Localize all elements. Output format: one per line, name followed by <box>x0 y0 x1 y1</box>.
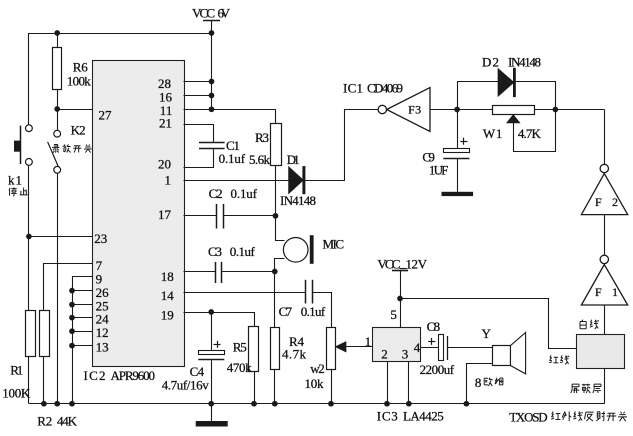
wire IC3 pin1 to w2 wiper <box>346 346 373 348</box>
svg-text:5: 5 <box>390 307 397 322</box>
wire node to R4 top <box>274 272 276 328</box>
svg-text:IC1: IC1 <box>343 81 363 96</box>
wire C9 bottom to ground <box>457 158 459 191</box>
junction <box>69 401 75 407</box>
potentiometer W1 wiper arrow <box>507 115 519 123</box>
svg-text:R1: R1 <box>10 362 23 377</box>
svg-text:VCC: VCC <box>377 256 400 271</box>
svg-text:4: 4 <box>414 340 421 355</box>
wire pin 9 bus vertical <box>73 277 93 404</box>
ground symbol C9 <box>442 192 474 196</box>
pushbutton k1 chinese label 停止 <box>9 187 28 196</box>
wire C7 to w2 top <box>313 293 332 328</box>
junction <box>69 328 75 334</box>
inverter F3 <box>387 88 430 132</box>
wire D1 cathode to F3 input <box>306 110 379 181</box>
junction <box>69 343 75 349</box>
speaker Y <box>493 346 511 366</box>
switch K2 blade <box>48 142 59 167</box>
capacitor C9 plus sign <box>460 141 467 143</box>
junction <box>69 302 75 308</box>
wire C8 to speaker <box>448 347 492 349</box>
svg-text:0.1uf: 0.1uf <box>219 151 246 166</box>
wire C4 bottom lead <box>211 360 213 404</box>
junction <box>26 234 32 240</box>
wire top rail VCC6V horizontal <box>29 33 212 35</box>
wire K2 bottom to ground rail <box>57 173 59 404</box>
wire IC3 pin3 lead <box>408 361 410 404</box>
svg-text:IC2: IC2 <box>84 368 106 383</box>
svg-text:17: 17 <box>158 207 172 222</box>
junction <box>208 309 214 315</box>
wire ground rail bottom <box>29 403 604 405</box>
svg-text:10k: 10k <box>305 376 325 391</box>
svg-text:LA4425: LA4425 <box>403 408 444 423</box>
svg-text:TXOSD: TXOSD <box>509 410 547 425</box>
svg-text:5.6k: 5.6k <box>249 152 271 167</box>
resistor R1 <box>26 311 36 357</box>
junction <box>209 93 215 99</box>
wire D2 top left <box>457 81 498 83</box>
svg-text:12: 12 <box>96 325 109 340</box>
wire R4 bottom lead <box>274 370 276 404</box>
svg-text:1: 1 <box>365 334 372 349</box>
junction <box>397 296 403 302</box>
wire pin 1 to D1 anode <box>184 180 289 182</box>
wire pin 12 <box>72 331 92 333</box>
svg-text:R5: R5 <box>233 340 247 355</box>
wire D2 top right <box>516 82 556 110</box>
svg-text:K2: K2 <box>71 123 86 138</box>
svg-text:2200uf: 2200uf <box>420 362 455 377</box>
svg-text:APR9600: APR9600 <box>111 368 156 383</box>
junction <box>54 106 60 112</box>
junction <box>406 401 412 407</box>
junction <box>54 401 60 407</box>
wire pin 24 <box>72 317 92 319</box>
wire pin 19 <box>184 313 255 327</box>
svg-text:12V: 12V <box>406 256 428 271</box>
TX05D infrared switch module body <box>577 335 625 369</box>
svg-text:100k: 100k <box>67 74 92 89</box>
svg-text:k 1: k 1 <box>8 173 22 188</box>
svg-text:44K: 44K <box>57 414 78 429</box>
junction <box>272 401 278 407</box>
svg-text:F 1: F 1 <box>595 285 618 299</box>
wire to F2 input <box>604 110 606 165</box>
pushbutton k1 terminals <box>28 125 30 128</box>
wire F3 output row to W1 <box>430 109 492 111</box>
wire pin 7 to R2 <box>44 264 93 311</box>
capacitor C9 polarized plates <box>444 149 470 153</box>
svg-text:21: 21 <box>159 116 172 131</box>
svg-text:IN4148: IN4148 <box>280 193 316 208</box>
capacitor C8 polarized plates <box>439 335 444 361</box>
pushbutton k1 actuator <box>20 126 22 164</box>
resistor R6 <box>53 48 62 90</box>
inverter F1 <box>581 265 627 306</box>
wire R3 bottom through pin1 to C2 node and MIC top <box>276 166 285 241</box>
resistor R4 <box>271 328 280 370</box>
junction <box>464 401 470 407</box>
wire pin 13 <box>72 345 92 347</box>
inverter F2 <box>581 174 627 215</box>
svg-text:6V: 6V <box>218 5 231 20</box>
wire R6 top lead <box>57 33 59 47</box>
svg-text:2: 2 <box>381 347 388 362</box>
wire pin 17 to C2 <box>184 215 217 217</box>
wire w2 bottom lead <box>331 370 333 404</box>
wire F2 to F1 <box>604 215 606 256</box>
potentiometer w2 wiper arrow <box>336 342 346 352</box>
wire W1 wiper return <box>514 110 556 152</box>
potentiometer W1 body <box>493 106 535 115</box>
capacitor C4 plus sign <box>214 344 221 346</box>
junction <box>41 401 47 407</box>
switch K2 chinese label 录放开关 <box>52 144 92 152</box>
junction <box>208 401 214 407</box>
svg-text:0.1uf: 0.1uf <box>301 304 326 319</box>
svg-text:470k: 470k <box>227 360 253 375</box>
IC3 LA4425 body <box>373 328 421 362</box>
capacitor C8 plus sign <box>428 341 435 343</box>
wire pin 25 <box>72 304 92 306</box>
wire R1 bottom to ground rail <box>28 357 30 404</box>
wire F1 to TX box (white lead) <box>604 305 606 334</box>
svg-text:27: 27 <box>99 107 113 122</box>
capacitor C4 polarized plates <box>199 351 225 355</box>
wire TX box shield to ground rail <box>604 369 606 404</box>
svg-text:4.7uf/16v: 4.7uf/16v <box>162 378 210 393</box>
wire pin 27 <box>57 109 92 111</box>
junction <box>69 315 75 321</box>
wire pin 11 to R3 top <box>184 110 276 124</box>
wire VCC 12V stub <box>392 270 408 272</box>
shield label 屏蔽层 <box>571 384 601 393</box>
wire W1 right lead <box>535 109 605 111</box>
svg-text:1: 1 <box>165 173 172 188</box>
wire speaker return to ground rail <box>467 364 493 404</box>
white lead label 白线 <box>580 320 599 329</box>
wire IC3 pin2 lead <box>387 361 389 404</box>
svg-text:C2: C2 <box>209 186 223 201</box>
svg-text:IC3: IC3 <box>377 408 398 423</box>
svg-text:R3: R3 <box>255 130 269 145</box>
svg-text:CD4069: CD4069 <box>367 81 403 96</box>
svg-text:20: 20 <box>158 157 171 172</box>
svg-text:18: 18 <box>161 269 174 284</box>
svg-text:R6: R6 <box>73 60 89 75</box>
diode D1 <box>289 167 303 193</box>
svg-text:19: 19 <box>161 308 174 323</box>
wire MIC bottom to pin18 node <box>275 259 285 272</box>
ground symbol main <box>196 421 228 427</box>
wire VCC12 branch to red lead <box>401 299 577 349</box>
resistor R5 <box>249 327 259 372</box>
junction <box>209 30 215 36</box>
svg-text:W1: W1 <box>483 126 503 141</box>
wire pin 23 <box>29 236 92 238</box>
capacitor C1 plates <box>199 142 225 144</box>
svg-text:D1: D1 <box>287 152 300 167</box>
svg-text:IN4148: IN4148 <box>508 54 541 69</box>
svg-text:1UF: 1UF <box>429 163 449 178</box>
svg-text:F 2: F 2 <box>595 195 618 209</box>
wire R2 bottom lead <box>43 357 45 404</box>
svg-text:23: 23 <box>94 231 107 246</box>
wire C2 to node <box>223 215 276 217</box>
svg-text:13: 13 <box>96 340 109 355</box>
wire pin 18 to C3 <box>184 271 216 273</box>
diode D2 <box>498 69 513 96</box>
wire IC3 pin4 to C8 <box>421 347 439 349</box>
svg-text:4.7k: 4.7k <box>282 347 307 362</box>
wire left rail vertical k1 branch top <box>28 33 30 125</box>
resistor R3 <box>271 124 282 166</box>
wire D2 branch left <box>457 82 459 148</box>
svg-text:0.1uf: 0.1uf <box>231 186 258 201</box>
svg-text:0.1uf: 0.1uf <box>230 244 256 259</box>
resistor R2 <box>40 311 50 357</box>
junction <box>454 107 460 113</box>
junction <box>273 213 279 219</box>
capacitor C7 plates <box>305 280 307 304</box>
switch K2 terminals <box>54 130 61 137</box>
junction <box>69 288 75 294</box>
junction <box>209 106 215 112</box>
svg-text:100K: 100K <box>2 386 31 401</box>
wire ground stub below rail <box>211 404 213 421</box>
junction <box>328 401 334 407</box>
junction <box>251 401 257 407</box>
svg-text:3: 3 <box>402 347 409 362</box>
wire R6 bottom lead to pin27 node <box>57 89 59 130</box>
wire pin 28 <box>184 81 212 83</box>
wire C4 top lead <box>211 312 213 350</box>
svg-text:Y: Y <box>482 326 492 341</box>
svg-text:VCC: VCC <box>192 5 215 20</box>
junction <box>384 401 390 407</box>
svg-text:MIC: MIC <box>323 236 345 251</box>
wire k1 to R1 and bottom <box>28 165 30 310</box>
svg-text:C3: C3 <box>208 244 222 259</box>
capacitor C3 plates <box>215 262 217 283</box>
junction <box>272 269 278 275</box>
potentiometer w2 body <box>327 328 336 370</box>
wire C3 to node <box>221 271 274 273</box>
wire R5 bottom lead <box>254 371 256 404</box>
junction <box>553 107 559 113</box>
junction <box>209 79 215 85</box>
svg-text:R2: R2 <box>37 414 52 429</box>
red lead label 红线 <box>549 355 569 364</box>
wire pin 21 to C1 <box>184 125 214 143</box>
wire pin 14 to C7 <box>184 292 306 294</box>
svg-text:4.7K: 4.7K <box>518 126 542 141</box>
capacitor C2 plates <box>216 204 218 229</box>
wire pin 16 <box>184 95 212 97</box>
wire pin 20 to C1 <box>184 149 214 168</box>
microphone MIC <box>283 238 308 263</box>
op-amp U? IC2 APR9600 body <box>93 61 185 367</box>
svg-text:D2: D2 <box>482 54 499 69</box>
wire VCC 6V stub <box>203 20 220 22</box>
svg-text:14: 14 <box>161 288 175 303</box>
svg-text:C8: C8 <box>427 319 441 334</box>
svg-text:w2: w2 <box>310 361 325 376</box>
wire pin 26 <box>72 290 92 292</box>
junction <box>54 30 60 36</box>
svg-text:8: 8 <box>475 375 482 390</box>
svg-text:F 3: F 3 <box>408 103 421 117</box>
svg-text:C7: C7 <box>279 304 293 319</box>
